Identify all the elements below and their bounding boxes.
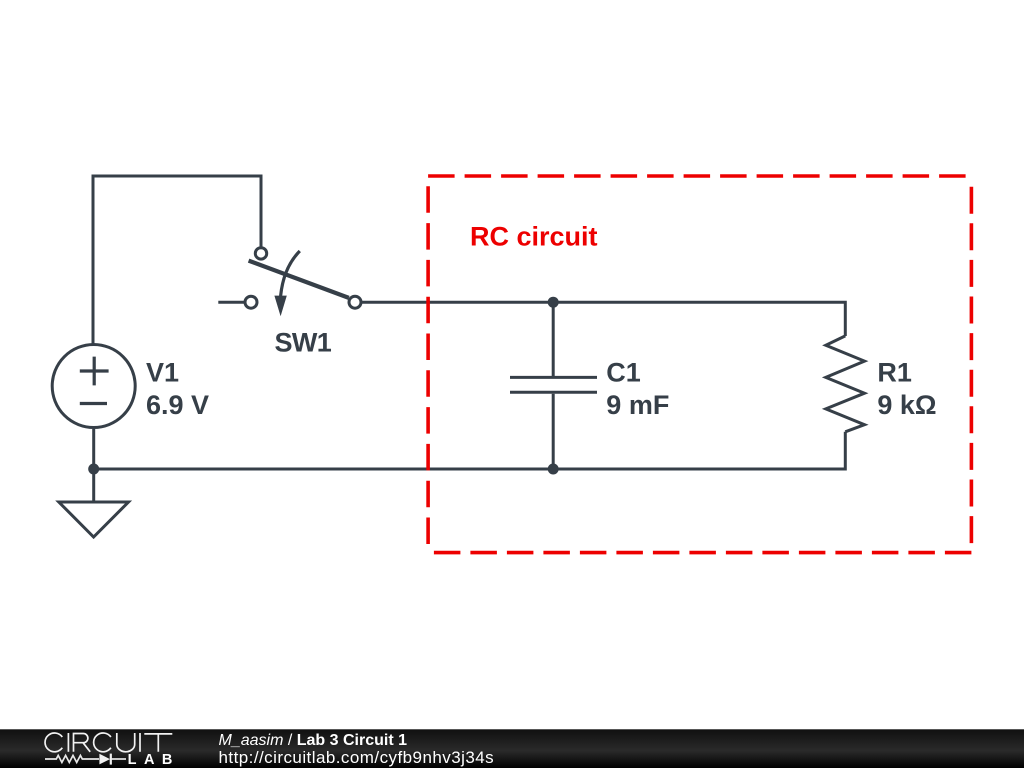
svg-text:R1: R1 — [877, 358, 912, 388]
svg-text:RC circuit: RC circuit — [470, 221, 598, 251]
CircuitLab logo diode cathode bar — [110, 754, 112, 765]
node junction bottom (cap/bottom rail) — [548, 464, 559, 475]
capacitor C1 top plate — [510, 376, 597, 379]
RC circuit boundary dashed box bottom edge — [428, 551, 971, 555]
svg-text:V1: V1 — [146, 358, 179, 388]
RC circuit boundary dashed box left edge — [426, 186, 430, 552]
wire switch left throw stub — [218, 301, 244, 304]
footer bar — [0, 729, 1024, 768]
svg-text:M_aasim / Lab 3 Circuit 1: M_aasim / Lab 3 Circuit 1 — [219, 732, 408, 749]
capacitor C1 top lead — [552, 302, 555, 376]
wire switch output to resistor top — [361, 302, 845, 336]
capacitor C1 bottom plate — [510, 391, 597, 394]
svg-text:C1: C1 — [606, 358, 641, 388]
RC circuit boundary dashed box top edge — [428, 174, 971, 178]
svg-text:6.9 V: 6.9 V — [146, 390, 209, 420]
switch SW1 arrowhead — [274, 296, 286, 317]
switch SW1 left throw circle — [245, 296, 257, 308]
V1 minus sign — [80, 402, 107, 405]
node dot V1 bottom junction — [88, 464, 99, 475]
switch SW1 lever — [249, 261, 349, 298]
CircuitLab logo resistor squiggle — [45, 755, 99, 762]
svg-text:9 kΩ: 9 kΩ — [877, 390, 936, 420]
svg-text:9 mF: 9 mF — [606, 390, 669, 420]
svg-text:http://circuitlab.com/cyfb9nhv: http://circuitlab.com/cyfb9nhv3j34s — [219, 748, 495, 767]
wire V1 bottom to ground — [92, 429, 95, 502]
V1 plus sign — [80, 357, 109, 386]
node junction top (cap/top rail) — [548, 297, 559, 308]
switch SW1 actuation arc — [281, 251, 300, 296]
voltage source V1 circle — [52, 345, 135, 428]
CircuitLab logo wordmark CIRCUIT — [45, 733, 172, 752]
switch SW1 pivot circle — [255, 248, 266, 259]
CircuitLab logo diode — [99, 754, 110, 765]
RC circuit boundary dashed box right edge — [970, 186, 974, 543]
wire bottom rail: resistor bottom to V1 bottom node — [94, 432, 846, 469]
CircuitLab logo diode lead — [112, 758, 127, 760]
ground symbol — [59, 502, 129, 537]
capacitor C1 bottom lead — [552, 394, 555, 469]
svg-text:LAB: LAB — [128, 752, 180, 768]
wire top-left loop: V1 top to switch pivot — [93, 176, 261, 344]
switch SW1 right throw circle — [349, 296, 361, 308]
svg-text:SW1: SW1 — [275, 327, 332, 357]
resistor R1 zigzag — [826, 336, 865, 432]
